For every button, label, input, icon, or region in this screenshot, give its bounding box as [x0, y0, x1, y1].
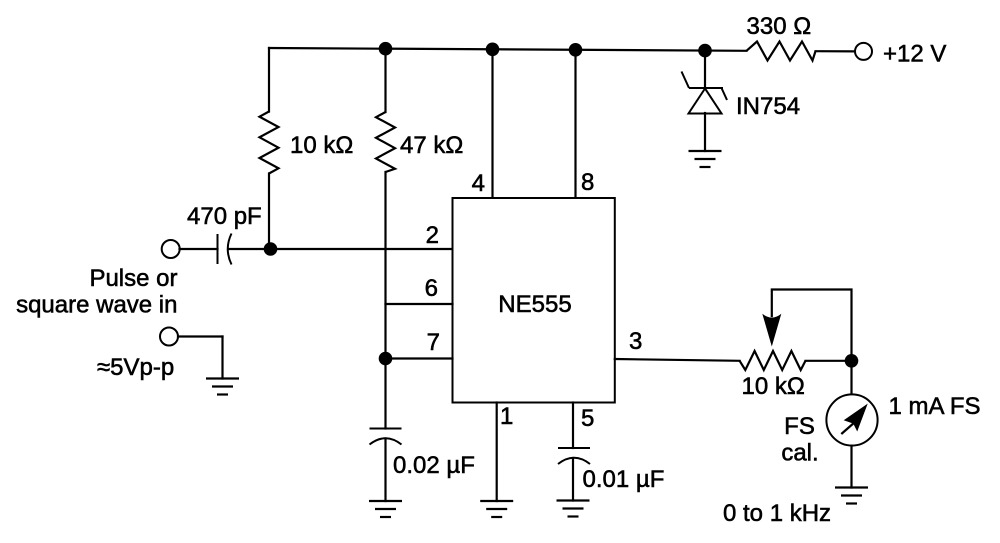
svg-text:8: 8 — [581, 169, 594, 196]
ground below pin 1 — [480, 501, 513, 517]
ground below zener — [689, 151, 722, 167]
node junction dot C1 10k pin2 — [264, 242, 278, 256]
ground below C2 — [369, 501, 402, 517]
wire C2 upper lead — [384, 359, 386, 429]
capacitor C3 0.01 uF plates — [558, 448, 590, 464]
terminal +12V — [855, 43, 872, 60]
wire C2 lower lead — [384, 439, 386, 502]
wire 10k lower lead — [268, 174, 270, 250]
wire node to meter — [850, 361, 852, 395]
svg-text:4: 4 — [472, 170, 485, 197]
capacitor C2 0.02 uF plates — [370, 429, 402, 445]
resistor R3 47 kohm body — [376, 112, 395, 172]
node junction dot above 47k — [379, 42, 393, 56]
node junction dot pot meter — [845, 354, 859, 368]
wire 47k lower lead down to pin7 node — [384, 172, 386, 359]
svg-text:6: 6 — [425, 275, 438, 302]
svg-text:0.02 µF: 0.02 µF — [393, 452, 475, 479]
wire pin 6 lead — [386, 303, 453, 305]
svg-text:47 kΩ: 47 kΩ — [400, 132, 463, 159]
wire C3 lower lead — [572, 458, 574, 501]
wire 10k upper lead — [268, 48, 270, 112]
meter M1 needle arrowhead — [844, 404, 868, 432]
wire wiper loop top — [772, 290, 852, 361]
wire input terminal to C1 — [180, 248, 218, 250]
wire pin 8 lead — [574, 50, 576, 198]
svg-text:470 pF: 470 pF — [187, 203, 262, 230]
svg-text:IN754: IN754 — [736, 93, 800, 120]
svg-text:0 to 1 kHz: 0 to 1 kHz — [723, 500, 831, 527]
node junction dot above pin 8 — [569, 43, 583, 57]
diode D1 zener triangle — [689, 89, 722, 114]
node junction dot above pin 4 — [486, 43, 500, 57]
wire meter to ground — [850, 446, 852, 488]
svg-text:≈5Vp-p: ≈5Vp-p — [97, 354, 174, 381]
terminal input ground side — [160, 328, 178, 346]
potentiometer R4 10 kohm body — [740, 351, 806, 370]
svg-text:10 kΩ: 10 kΩ — [290, 132, 353, 159]
wire pin 4 lead — [491, 49, 493, 198]
svg-text:square wave in: square wave in — [16, 292, 177, 319]
capacitor C1 470 pF plates — [218, 234, 232, 265]
wire pot right lead to node — [806, 360, 852, 362]
wire top rail left segment — [269, 48, 747, 51]
wire pin 7 lead — [386, 357, 453, 359]
svg-text:0.01 µF: 0.01 µF — [583, 466, 665, 493]
ground below meter — [835, 488, 868, 504]
terminal input pulse — [162, 240, 180, 258]
wire pin 5 lead — [572, 403, 574, 449]
svg-text:3: 3 — [629, 328, 642, 355]
wire pin 1 lead — [496, 403, 498, 502]
resistor R1 330 ohm body — [747, 42, 816, 61]
diode D1 zener IN754 cathode bar — [682, 72, 728, 101]
op-amp U1 NE555 box — [453, 198, 615, 403]
wire pin 3 to potentiometer — [615, 359, 740, 361]
resistor R2 10 kohm body — [260, 112, 279, 174]
svg-text:7: 7 — [427, 329, 440, 356]
svg-text:1: 1 — [500, 403, 513, 430]
svg-text:FS: FS — [784, 413, 815, 440]
svg-text:10 kΩ: 10 kΩ — [742, 373, 805, 400]
svg-text:2: 2 — [426, 222, 439, 249]
ground input — [206, 379, 239, 395]
wire C1 to pin 2 of NE555 — [229, 248, 453, 250]
wire 47k upper lead — [384, 49, 386, 112]
node junction dot pin 7 — [379, 352, 393, 366]
ground below C3 — [557, 501, 590, 517]
svg-text:+12 V: +12 V — [883, 41, 946, 68]
svg-text:1 mA FS: 1 mA FS — [889, 393, 981, 420]
wire zener anode lead — [704, 113, 706, 151]
svg-text:Pulse or: Pulse or — [89, 265, 177, 292]
meter M1 needle — [841, 422, 855, 434]
svg-text:330 Ω: 330 Ω — [747, 13, 812, 40]
wire input ground horizontal — [178, 335, 223, 337]
wire input ground vertical — [221, 337, 223, 379]
svg-text:NE555: NE555 — [498, 291, 571, 318]
wire top rail right segment to +12V terminal — [816, 50, 856, 52]
svg-text:cal.: cal. — [781, 440, 818, 467]
meter M1 circle — [826, 394, 877, 445]
potentiometer wiper arrow head — [762, 314, 781, 347]
wire zener cathode lead — [704, 51, 706, 88]
node junction dot above zener — [698, 44, 712, 58]
svg-text:5: 5 — [581, 405, 594, 432]
